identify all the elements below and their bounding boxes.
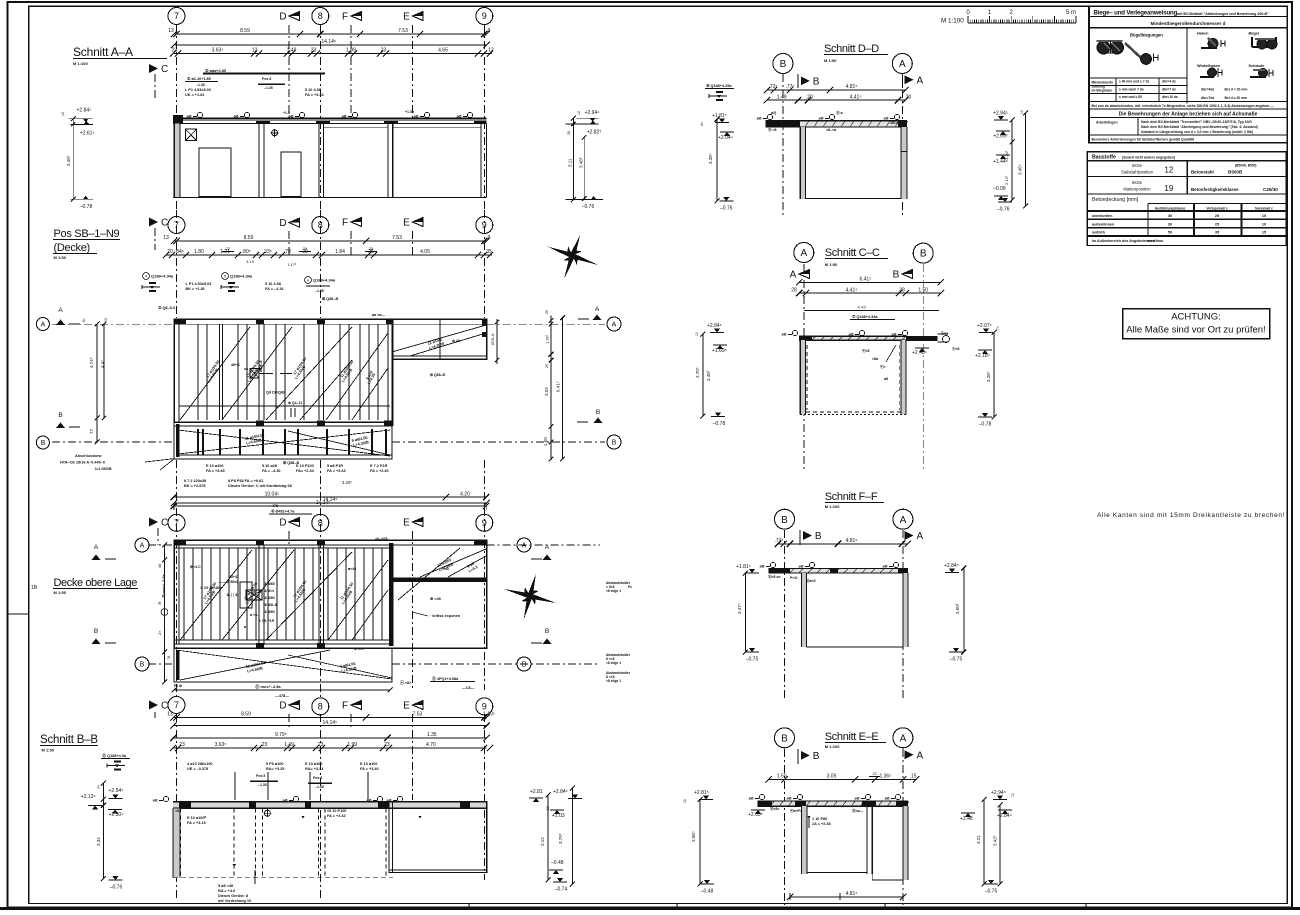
svg-text:48+①: 48+① bbox=[231, 362, 241, 367]
svg-text:77: 77 bbox=[89, 428, 94, 434]
slab F-F bbox=[769, 569, 908, 574]
svg-text:×8–×ø: ×8–×ø bbox=[826, 128, 837, 132]
svg-text:A: A bbox=[612, 322, 617, 329]
svg-text:E 7.2 P1R: E 7.2 P1R bbox=[370, 464, 388, 468]
svg-text:B: B bbox=[813, 751, 820, 762]
svg-text:-Hinw.: -Hinw. bbox=[1153, 239, 1164, 243]
svg-text:øØ: øØ bbox=[855, 797, 860, 801]
svg-text:ⓔ×8: ⓔ×8 bbox=[862, 348, 870, 353]
svg-text:+1.5ø: +1.5ø bbox=[405, 110, 415, 114]
svg-text:UE = –0.375: UE = –0.375 bbox=[187, 767, 208, 771]
svg-text:Stabstahlposition: Stabstahlposition bbox=[1121, 169, 1154, 174]
svg-text:B: B bbox=[612, 440, 617, 447]
svg-text:14.14⁵: 14.14⁵ bbox=[323, 720, 338, 726]
svg-text:Alle Kanten sind mit 15mm Drei: Alle Kanten sind mit 15mm Dreikantleiste… bbox=[1097, 512, 1285, 519]
svg-text:RA= +3.34: RA= +3.34 bbox=[305, 767, 324, 771]
svg-text:12: 12 bbox=[1164, 166, 1173, 175]
svg-text:1.50: 1.50 bbox=[543, 437, 548, 446]
crosshair symbol bbox=[272, 130, 278, 136]
svg-text:30: 30 bbox=[1168, 222, 1172, 226]
svg-text:D: D bbox=[279, 12, 286, 23]
svg-text:–1.35: –1.35 bbox=[264, 86, 273, 90]
svg-text:10: 10 bbox=[1262, 214, 1266, 218]
svg-text:Ø78–8: Ø78–8 bbox=[491, 334, 495, 345]
svg-text:RA = +4.0: RA = +4.0 bbox=[218, 889, 235, 893]
svg-text:3.05: 3.05 bbox=[827, 774, 837, 780]
svg-text:+1.81⁵: +1.81⁵ bbox=[736, 564, 751, 570]
svg-text:FA = +2.40: FA = +2.40 bbox=[370, 469, 389, 473]
svg-text:letzte: letzte bbox=[1132, 180, 1143, 185]
svg-text:ø8: ø8 bbox=[884, 377, 888, 381]
svg-text:B: B bbox=[140, 662, 145, 669]
svg-text:FA = +3.43: FA = +3.43 bbox=[327, 469, 346, 473]
svg-text:9.79⁵: 9.79⁵ bbox=[275, 732, 287, 738]
svg-text:A: A bbox=[94, 544, 99, 551]
svg-text:Pos 8: Pos 8 bbox=[256, 774, 265, 778]
svg-text:3.47⁵: 3.47⁵ bbox=[737, 603, 742, 614]
svg-text:12: 12 bbox=[577, 111, 581, 115]
svg-text:4.65: 4.65 bbox=[438, 48, 448, 54]
plan2 center annotation cluster bbox=[246, 590, 262, 600]
svg-text:Betonstahl: Betonstahl bbox=[1191, 170, 1214, 175]
svg-text:Bügel: Bügel bbox=[1249, 31, 1260, 35]
svg-text:Q188+4.34a: Q188+4.34a bbox=[151, 274, 174, 279]
svg-text:5 10 ø28: 5 10 ø28 bbox=[262, 464, 277, 468]
B-B left elevation bbox=[102, 783, 104, 878]
svg-text:B: B bbox=[545, 628, 549, 635]
svg-text:8 P8 P38 FA = +9.81: 8 P8 P38 FA = +9.81 bbox=[228, 479, 263, 483]
svg-text:20: 20 bbox=[167, 249, 173, 255]
svg-text:L P1 4.53x5.03: L P1 4.53x5.03 bbox=[185, 88, 211, 92]
svg-text:FA = +3.40: FA = +3.40 bbox=[360, 767, 379, 771]
svg-text:A: A bbox=[899, 59, 906, 70]
svg-text:–1.35: –1.35 bbox=[315, 289, 324, 293]
svg-text:3.63⁵: 3.63⁵ bbox=[215, 742, 227, 748]
svg-text:Mindestbiegerollendurchmesser: Mindestbiegerollendurchmesser d bbox=[1151, 21, 1226, 26]
svg-text:A: A bbox=[917, 750, 924, 761]
svg-text:+2.61⁵: +2.61⁵ bbox=[80, 131, 95, 137]
dim row 4 B-B bbox=[174, 747, 487, 749]
svg-text:④ Ø60: ④ Ø60 bbox=[264, 581, 275, 586]
ceiling lines bays 3-4 A-A bbox=[324, 127, 388, 129]
svg-text:–0.76: –0.76 bbox=[582, 204, 595, 210]
svg-text:78: 78 bbox=[167, 656, 171, 660]
subtitle row Mindestbiegerollendurchmesser bbox=[1089, 27, 1287, 29]
svg-text:7: 7 bbox=[174, 11, 179, 21]
svg-text:4.4⁷: 4.4⁷ bbox=[100, 360, 105, 368]
svg-text:1.49: 1.49 bbox=[287, 48, 297, 54]
dims E-E bbox=[769, 778, 917, 780]
svg-text:+2.07⁵: +2.07⁵ bbox=[977, 323, 992, 329]
svg-text:4.41⁵: 4.41⁵ bbox=[850, 94, 862, 100]
svg-text:② øøø+2.85: ② øøø+2.85 bbox=[205, 68, 226, 73]
svg-text:13: 13 bbox=[167, 712, 173, 718]
svg-text:Nennmaß c: Nennmaß c bbox=[1255, 206, 1273, 210]
svg-text:2×: 2× bbox=[97, 785, 101, 789]
svg-text:B: B bbox=[920, 249, 927, 260]
svg-text:23: 23 bbox=[318, 742, 324, 748]
section flags D-D bbox=[801, 76, 810, 85]
svg-text:Die Bewehrungen der Anlage bez: Die Bewehrungen der Anlage beziehen sich… bbox=[1119, 112, 1258, 118]
walls F-F bbox=[801, 573, 806, 647]
svg-text:35: 35 bbox=[1215, 231, 1219, 235]
svg-text:+2.84⁵: +2.84⁵ bbox=[553, 789, 568, 795]
svg-text:+2.13⁵: +2.13⁵ bbox=[81, 794, 96, 800]
svg-text:1.36⁵: 1.36⁵ bbox=[545, 334, 550, 344]
svg-text:⑪ mos⁴–3.5a: ⑪ mos⁴–3.5a bbox=[255, 683, 281, 689]
svg-text:80⁵: 80⁵ bbox=[243, 249, 251, 255]
svg-text:Im Außenbereich des Angebotene: Im Außenbereich des Angebotenen c bbox=[1092, 239, 1155, 243]
svg-text:RA= +3.25: RA= +3.25 bbox=[266, 767, 284, 771]
svg-text:–0.78: –0.78 bbox=[979, 422, 992, 428]
svg-text:ⓞ×8: ⓞ×8 bbox=[952, 346, 960, 351]
svg-text:UK = +1.81: UK = +1.81 bbox=[185, 93, 204, 97]
svg-text:4.70: 4.70 bbox=[426, 742, 436, 748]
svg-text:6.41⁵: 6.41⁵ bbox=[556, 381, 561, 392]
svg-text:+2.81⁵: +2.81⁵ bbox=[694, 790, 709, 796]
svg-text:⊞ Q88–B: ⊞ Q88–B bbox=[322, 297, 339, 301]
svg-text:øØ: øØ bbox=[367, 799, 372, 803]
svg-text:Nach dem BV-Merkblatt "Trennmi: Nach dem BV-Merkblatt "Trennmittel": DBV… bbox=[1141, 120, 1252, 124]
svg-text:Bügelbiegungen: Bügelbiegungen bbox=[1130, 33, 1163, 38]
svg-text:5 ø8 ×48: 5 ø8 ×48 bbox=[218, 884, 233, 888]
svg-text:øØ: øØ bbox=[787, 797, 792, 801]
svg-text:FA = –4.34: FA = –4.34 bbox=[265, 287, 284, 291]
svg-text:dbr=4 ds: dbr=4 ds bbox=[1162, 80, 1176, 84]
svg-text:Mattenposition: Mattenposition bbox=[1123, 187, 1151, 192]
svg-text:ⓞ ×8×: ⓞ ×8× bbox=[400, 680, 412, 685]
title block frame bbox=[1089, 6, 1287, 142]
plan1 wing right dim bbox=[496, 319, 498, 364]
grid circles E-E bbox=[775, 728, 795, 748]
bottom scan edge bar bbox=[0, 907, 1300, 910]
svg-text:1.99: 1.99 bbox=[346, 48, 356, 54]
plan2 top dim bbox=[174, 502, 487, 504]
svg-text:5 10 4.58: 5 10 4.58 bbox=[265, 282, 281, 286]
callout notes plan1 bbox=[143, 273, 150, 280]
svg-text:Schnitt C–C: Schnitt C–C bbox=[825, 247, 880, 259]
svg-text:3.11: 3.11 bbox=[568, 158, 573, 167]
svg-text:M 1:100: M 1:100 bbox=[73, 61, 88, 66]
svg-text:øØ: øØ bbox=[414, 115, 419, 119]
svg-text:øØ: øØ bbox=[342, 115, 347, 119]
walls C-C bbox=[800, 340, 805, 414]
star north arrow 1 bbox=[539, 225, 606, 288]
svg-text:mit Verdrehung 10: mit Verdrehung 10 bbox=[218, 899, 251, 903]
dim row 1 plan1 bbox=[174, 240, 487, 242]
svg-text:13: 13 bbox=[163, 235, 169, 241]
svg-text:ø×: ø× bbox=[776, 121, 780, 125]
svg-text:M 1:50: M 1:50 bbox=[54, 590, 67, 595]
plan1 wing bbox=[392, 319, 487, 359]
svg-text:E 10 ø100: E 10 ø100 bbox=[206, 464, 224, 468]
svg-text:8.59: 8.59 bbox=[244, 235, 254, 241]
svg-text:FA = +3.34: FA = +3.34 bbox=[305, 93, 325, 97]
svg-text:+1.81⁵: +1.81⁵ bbox=[712, 113, 727, 119]
svg-text:⑨ Q188+4.25a: ⑨ Q188+4.25a bbox=[706, 83, 732, 88]
corridor rebar bars bbox=[197, 429, 199, 455]
svg-text:8.59: 8.59 bbox=[240, 28, 250, 34]
svg-text:A: A bbox=[140, 543, 145, 550]
svg-text:M 1:100: M 1:100 bbox=[825, 504, 840, 509]
svg-text:øØ: øØ bbox=[799, 565, 804, 569]
svg-text:⑪ 4PQ1+4.08a: ⑪ 4PQ1+4.08a bbox=[432, 676, 459, 681]
svg-text:3.45⁵: 3.45⁵ bbox=[1018, 164, 1023, 175]
grid circles D-D bbox=[773, 54, 793, 74]
svg-text:⊕ ×48: ⊕ ×48 bbox=[430, 597, 441, 601]
svg-text:E: E bbox=[403, 701, 410, 712]
svg-text:Nach dem BV-Merkblatt "Abreini: Nach dem BV-Merkblatt "Abreinigung und B… bbox=[1141, 125, 1258, 129]
plan1 bay diagonals bbox=[180, 327, 250, 420]
svg-text:D: D bbox=[279, 701, 286, 712]
plan2 left vdim bbox=[164, 545, 166, 682]
svg-text:8: 8 bbox=[318, 702, 323, 712]
svg-text:dbr=7 ds: dbr=7 ds bbox=[1162, 87, 1176, 91]
dims C-C bbox=[799, 281, 941, 283]
dim row 1 A-A bbox=[174, 33, 487, 35]
svg-text:25: 25 bbox=[369, 247, 373, 251]
door openings A-A bbox=[199, 148, 231, 196]
svg-text:A: A bbox=[800, 248, 807, 259]
svg-text:–0.74: –0.74 bbox=[555, 887, 568, 893]
slab D-D bbox=[765, 121, 907, 127]
svg-text:×8 stige 1: ×8 stige 1 bbox=[606, 679, 621, 683]
svg-text:28: 28 bbox=[567, 131, 571, 135]
grid circles row A-A bbox=[168, 8, 185, 25]
svg-text:–1.35: –1.35 bbox=[258, 783, 267, 787]
svg-text:øØ: øØ bbox=[883, 565, 888, 569]
svg-text:3.60³: 3.60³ bbox=[955, 603, 960, 614]
svg-text:(B500A, B500): (B500A, B500) bbox=[1235, 164, 1256, 168]
svg-text:–0.48: –0.48 bbox=[551, 860, 564, 866]
svg-text:19: 19 bbox=[1164, 184, 1173, 193]
dim row 3 A-A bbox=[174, 53, 492, 55]
dim row 3 B-B bbox=[174, 737, 487, 739]
svg-text:4.41⁵: 4.41⁵ bbox=[846, 287, 858, 293]
svg-text:–0.75: –0.75 bbox=[746, 657, 759, 663]
corridor2 left dark edge bbox=[176, 650, 180, 680]
svg-text:M 1:100: M 1:100 bbox=[941, 18, 964, 25]
svg-text:letzte: letzte bbox=[1132, 163, 1143, 168]
svg-text:Q188+4.34a: Q188+4.34a bbox=[313, 278, 336, 283]
svg-text:1 10 P80: 1 10 P80 bbox=[812, 817, 827, 821]
svg-text:A: A bbox=[917, 531, 924, 542]
plan1 right vdim bbox=[550, 316, 552, 460]
svg-text:Arbeitsfugen: Arbeitsfugen bbox=[1096, 120, 1118, 124]
svg-text:4.05: 4.05 bbox=[420, 249, 430, 255]
svg-text:58: 58 bbox=[546, 806, 550, 810]
svg-text:øØ: øØ bbox=[283, 799, 288, 803]
svg-text:12: 12 bbox=[695, 332, 699, 336]
svg-text:9: 9 bbox=[488, 28, 491, 34]
svg-text:4 ø10 286x100: 4 ø10 286x100 bbox=[187, 762, 213, 766]
svg-text:3.28⁴: 3.28⁴ bbox=[986, 371, 991, 382]
grid circles C-C bbox=[794, 243, 814, 263]
svg-text:23: 23 bbox=[384, 742, 390, 748]
svg-text:1.17⁵: 1.17⁵ bbox=[288, 263, 297, 267]
walls E-E bbox=[801, 806, 807, 874]
svg-text:2.13⁵: 2.13⁵ bbox=[1004, 175, 1009, 185]
svg-text:■×40: ■×40 bbox=[348, 567, 356, 571]
svg-text:—— ② 58±1: —— ② 58±1 bbox=[218, 579, 238, 584]
svg-text:+2.81: +2.81 bbox=[530, 789, 543, 795]
svg-text:⑨: ⑨ bbox=[157, 601, 162, 605]
svg-text:Schnitt A–A: Schnitt A–A bbox=[73, 45, 133, 59]
svg-text:23: 23 bbox=[311, 48, 317, 54]
svg-text:1.80: 1.80 bbox=[194, 249, 204, 255]
svg-text:øØ: øØ bbox=[884, 117, 889, 121]
svg-text:⊞ Q88–B: ⊞ Q88–B bbox=[430, 373, 445, 377]
svg-text:Decke obere Lage: Decke obere Lage bbox=[54, 577, 138, 589]
svg-text:5 ø8 P1R: 5 ø8 P1R bbox=[327, 464, 343, 468]
svg-text:4.81⁵: 4.81⁵ bbox=[846, 84, 858, 90]
svg-text:C: C bbox=[161, 518, 168, 529]
svg-text:≥ 40 mm und ≥ 7 ds: ≥ 40 mm und ≥ 7 ds bbox=[1119, 80, 1150, 84]
svg-text:+2.03⁵: +2.03⁵ bbox=[748, 812, 763, 818]
svg-text:C: C bbox=[161, 64, 168, 75]
plan2 border dark segments bbox=[174, 540, 186, 545]
svg-text:8.59: 8.59 bbox=[241, 712, 251, 718]
svg-text:72: 72 bbox=[226, 247, 230, 251]
plan1 left vdim bbox=[96, 324, 98, 442]
svg-text:×8ø: ×8ø bbox=[872, 357, 879, 361]
svg-text:øØ: øØ bbox=[892, 333, 897, 337]
svg-text:FA = –4.30: FA = –4.30 bbox=[262, 469, 281, 473]
svg-text:Pos SB–1–N9: Pos SB–1–N9 bbox=[54, 228, 120, 240]
Arbeitsfugen row bbox=[1089, 134, 1287, 136]
svg-text:3.03: 3.03 bbox=[544, 387, 549, 396]
svg-text:E 10 P100: E 10 P100 bbox=[296, 464, 314, 468]
svg-text:8: 8 bbox=[318, 11, 323, 21]
section flag C bbox=[149, 64, 158, 73]
svg-text:⊞ ×LC: ⊞ ×LC bbox=[190, 565, 201, 569]
svg-text:⊕ Q4–11: ⊕ Q4–11 bbox=[288, 401, 302, 405]
svg-text:3.46³: 3.46³ bbox=[706, 370, 711, 381]
B-B right elevation bbox=[547, 795, 549, 880]
svg-text:7.53: 7.53 bbox=[392, 235, 402, 241]
plan1 bottom dims bbox=[174, 496, 486, 498]
grid circles row plan1 bbox=[149, 218, 158, 227]
dims D-D bbox=[767, 89, 906, 91]
svg-text:ⓓø×0: ⓓø×0 bbox=[806, 578, 816, 583]
dim row 2 A-A bbox=[174, 44, 487, 46]
svg-text:14.14⁵: 14.14⁵ bbox=[321, 39, 336, 45]
svg-text:ⓔø×P×: ⓔø×P× bbox=[790, 808, 802, 813]
svg-text:–0.76: –0.76 bbox=[110, 885, 123, 891]
section flags F-F bbox=[803, 531, 812, 540]
svg-text:25: 25 bbox=[545, 310, 549, 314]
svg-text:M 1:50: M 1:50 bbox=[54, 255, 67, 260]
svg-text:12: 12 bbox=[61, 112, 65, 116]
svg-text:.77⁵: .77⁵ bbox=[785, 84, 794, 90]
svg-text:5 10 4.58: 5 10 4.58 bbox=[305, 88, 321, 92]
svg-text:d×: d× bbox=[700, 122, 704, 126]
svg-text:1.50: 1.50 bbox=[918, 287, 928, 293]
svg-text:Bei von ds abweichenden, örtl.: Bei von ds abweichenden, örtl. erforderl… bbox=[1092, 104, 1275, 108]
svg-text:Dieses Gerüst: 8: Dieses Gerüst: 8 bbox=[218, 894, 248, 898]
svg-text:øØ: øØ bbox=[187, 115, 192, 119]
Baustoffe table bbox=[1087, 152, 1286, 246]
svg-text:Betondeckung [mm]: Betondeckung [mm] bbox=[1092, 197, 1139, 203]
svg-text:25: 25 bbox=[1215, 214, 1219, 218]
svg-text:øØ: øØ bbox=[234, 115, 239, 119]
dim row 1 B-B bbox=[174, 716, 487, 718]
svg-text:A: A bbox=[522, 543, 527, 550]
svg-text:+2.94⁵: +2.94⁵ bbox=[109, 788, 124, 794]
walls B-B bbox=[173, 808, 180, 877]
svg-text:×40: ×40 bbox=[443, 567, 449, 571]
svg-text:–0.76: –0.76 bbox=[997, 207, 1010, 213]
svg-text:Schlaufe: Schlaufe bbox=[1249, 64, 1265, 68]
svg-text:FA = +3.45: FA = +3.45 bbox=[206, 469, 225, 473]
plan1 small square symbol bbox=[250, 369, 259, 378]
svg-text:12: 12 bbox=[104, 318, 108, 322]
svg-text:Schnitt E–E: Schnitt E–E bbox=[825, 731, 879, 743]
svg-text:5 m: 5 m bbox=[1066, 10, 1076, 16]
star north arrow 2 bbox=[498, 567, 562, 627]
svg-text:48+①: 48+① bbox=[229, 574, 239, 579]
svg-text:7.53: 7.53 bbox=[413, 712, 423, 718]
svg-text:.77⁵: .77⁵ bbox=[774, 538, 783, 544]
svg-text:3.46³: 3.46³ bbox=[578, 157, 583, 168]
svg-text:Schnitt F–F: Schnitt F–F bbox=[825, 491, 878, 503]
svg-text:④ Ø8–8: ④ Ø8–8 bbox=[264, 602, 277, 607]
svg-text:L C9 40+48①: L C9 40+48① bbox=[201, 585, 223, 590]
svg-text:13: 13 bbox=[168, 28, 174, 34]
svg-text:Betonfestigkeitsklasse: Betonfestigkeitsklasse bbox=[1191, 187, 1239, 192]
slab B-B bbox=[173, 802, 487, 809]
svg-text:C: C bbox=[161, 701, 168, 712]
svg-text:3.38⁴: 3.38⁴ bbox=[708, 153, 713, 164]
dim row 2 B-B bbox=[174, 725, 487, 727]
plan1 row grid lines bbox=[52, 323, 174, 325]
svg-text:F: F bbox=[342, 218, 348, 229]
svg-text:FA = +3.42: FA = +3.42 bbox=[327, 814, 346, 818]
svg-text:3.70⁵: 3.70⁵ bbox=[695, 367, 700, 378]
svg-text:22: 22 bbox=[872, 772, 876, 776]
pictogram area divider bbox=[1186, 28, 1188, 104]
svg-text:A: A bbox=[790, 270, 797, 281]
svg-text:9: 9 bbox=[482, 702, 487, 712]
svg-text:oben/unten: oben/unten bbox=[1092, 214, 1113, 218]
slab A-A bbox=[173, 117, 487, 119]
svg-text:FA= +2.34: FA= +2.34 bbox=[296, 469, 315, 473]
svg-text:③ mos⁴–4.5a: ③ mos⁴–4.5a bbox=[161, 573, 166, 598]
svg-text:dbr=4ds: dbr=4ds bbox=[1201, 88, 1214, 92]
svg-text:✕ C9 P1R: ✕ C9 P1R bbox=[258, 619, 275, 623]
plan2 diagonals bbox=[180, 550, 252, 640]
svg-text:B: B bbox=[41, 440, 46, 447]
svg-text:B: B bbox=[522, 662, 527, 669]
svg-text:HTA–CE 28/16 A–0.440–0: HTA–CE 28/16 A–0.440–0 bbox=[60, 461, 105, 465]
svg-text:P8 ⊕: P8 ⊕ bbox=[174, 684, 183, 688]
svg-text:Ⓧ×ø—: Ⓧ×ø— bbox=[852, 808, 864, 813]
svg-text:Winkelhaken: Winkelhaken bbox=[1197, 64, 1221, 68]
svg-text:B: B bbox=[58, 412, 62, 419]
svg-text:1A = +2.38: 1A = +2.38 bbox=[812, 822, 831, 826]
svg-text:Bei d ≥ 20 mm: Bei d ≥ 20 mm bbox=[1225, 96, 1248, 100]
svg-text:–0.78: –0.78 bbox=[713, 421, 726, 427]
svg-text:4.20: 4.20 bbox=[460, 491, 470, 497]
svg-text:⓪×8×: ⓪×8× bbox=[770, 806, 780, 811]
svg-text:1.35: 1.35 bbox=[427, 732, 437, 738]
svg-text:–0.78: –0.78 bbox=[80, 204, 93, 210]
svg-text:② Ø60: ② Ø60 bbox=[264, 595, 275, 600]
dims F-F bbox=[778, 543, 908, 545]
svg-text:B500B: B500B bbox=[1228, 170, 1243, 175]
svg-text:29: 29 bbox=[303, 247, 307, 251]
grid circles F-F bbox=[775, 509, 795, 529]
